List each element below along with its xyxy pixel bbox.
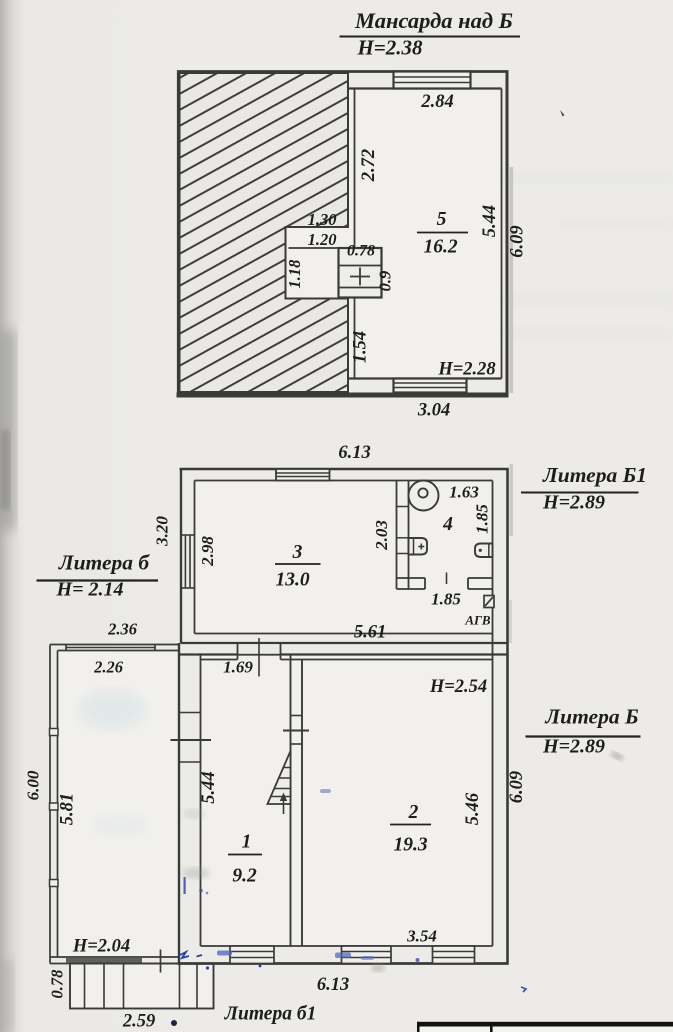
Литера Б left wall outer [178,643,180,965]
joint squares on veranda left wall [50,729,59,887]
bottom plan labels [24,443,647,1032]
svg-text:2.84: 2.84 [420,92,453,112]
room 4 bottom wall with door opening [397,573,493,590]
faint bleed-through rows [430,171,672,339]
ink marks and specks [78,690,625,1026]
Литера Б top wall lower line [178,653,508,655]
svg-text:0.78: 0.78 [347,243,375,260]
outer left wall [177,71,180,397]
svg-text:Литера Б: Литера Б [544,705,639,729]
svg-text:5.46: 5.46 [463,792,483,825]
svg-text:Н=2.54: Н=2.54 [429,677,487,697]
underline Литера Б [526,735,641,737]
svg-text:19.3: 19.3 [393,835,427,856]
room 5 interior fill [286,89,502,379]
wash fixture left (room 4) [409,538,428,555]
rooms 1-2 interior top line [201,659,238,661]
svg-text:9.2: 9.2 [232,866,257,887]
svg-text:2.59: 2.59 [122,1012,155,1032]
svg-text:2.98: 2.98 [198,536,217,567]
svg-text:0.9: 0.9 [376,271,395,292]
top plan dimension labels [285,92,528,421]
svg-text:2.72: 2.72 [359,149,379,182]
bottom window (3.04) [394,379,467,393]
room 4 left wall [397,481,409,590]
dark dot near 2.59 [171,1020,177,1026]
Литера Б left wall inner [200,655,202,947]
smudge near window mid-bottom [371,964,385,972]
dimension tick near 2.59 [160,950,162,973]
outer right wall [506,71,509,398]
svg-text:2: 2 [408,802,419,823]
underline Литера б [37,579,159,581]
veranda left wall (double) [50,645,58,964]
svg-text:6.13: 6.13 [338,443,370,463]
fraction line room 2 [390,824,431,826]
Б1 left wall window (3.20) [181,535,195,588]
dividing wall Б1/Б : room3 bottom inner line [195,633,493,635]
svg-text:Н=2.89: Н=2.89 [542,736,605,758]
svg-text:1.85: 1.85 [473,504,492,534]
fraction line room 3 [275,563,321,565]
svg-text:16.2: 16.2 [423,237,457,258]
Б1 left wall outer [180,468,182,644]
bottom windows [230,946,475,964]
svg-text:5.44: 5.44 [480,205,500,237]
top window (2.84) [394,72,471,89]
niche inner line (under 1.20) [289,247,340,249]
svg-text:5.44: 5.44 [199,771,219,803]
Б1 left wall inner [194,481,196,634]
svg-text:4: 4 [442,514,453,535]
inner right wall line [501,89,503,379]
svg-text:6.09: 6.09 [507,771,527,803]
fraction line room 5 [417,232,468,234]
svg-text:Н=2.38: Н=2.38 [356,36,423,60]
building bottom wall outer line [178,962,509,965]
veranda bottom wall [50,957,179,964]
svg-text:3.04: 3.04 [417,401,450,421]
svg-text:Литера б: Литера б [58,551,151,575]
window in left wall of room 1 [171,713,212,763]
toilet in room 4 [409,481,439,511]
svg-text:2.26: 2.26 [93,658,124,677]
right wall inner line [492,481,494,947]
svg-text:Н= 2.14: Н= 2.14 [56,579,124,601]
svg-text:6.00: 6.00 [24,770,43,800]
scanner shading left edge [0,0,26,1032]
svg-text:5.61: 5.61 [354,623,386,643]
svg-text:1.18: 1.18 [285,260,304,289]
interior wall between room 1 and 2 [283,655,309,947]
svg-text:5.81: 5.81 [58,793,78,825]
stair arrow [283,795,285,814]
Б1 top wall inner line [195,480,493,482]
gray smudge under H=2.89 [609,750,624,761]
АГВ gas unit square [484,596,494,608]
blue dash left wall room1 [184,877,186,894]
svg-text:1.85: 1.85 [431,590,461,609]
blue mark below 6.13 [521,987,526,992]
faint cyan smudges in veranda [78,690,146,730]
svg-text:Мансарда над Б: Мансарда над Б [354,8,513,33]
svg-text:Н=2.89: Н=2.89 [542,492,605,514]
veranda top wall [50,645,179,651]
gray band right of plan walls (fold shadow) [510,167,514,393]
svg-text:3: 3 [292,542,303,563]
svg-text:0.78: 0.78 [48,970,67,999]
underline Литера Б1 [521,492,639,494]
svg-text:АГВ: АГВ [464,613,491,628]
staircase in room 1 [268,751,291,814]
svg-text:6.09: 6.09 [508,225,528,257]
svg-text:3.54: 3.54 [406,927,437,946]
svg-text:3.20: 3.20 [153,516,172,547]
Литера Б1 outer top wall [180,468,509,470]
svg-text:1.20: 1.20 [308,230,337,249]
room 5 bottom wall inner line [348,377,502,379]
fraction line room 1 [228,854,262,856]
svg-text:Н=2.04: Н=2.04 [72,937,130,957]
building right wall outer (runs full height) [506,468,509,965]
room interiors fill [58,481,493,1009]
svg-text:2.36: 2.36 [107,620,138,639]
svg-text:1.63: 1.63 [449,483,479,502]
blue scribbles bottom left [180,952,189,958]
svg-text:6.13: 6.13 [317,975,349,995]
bottom outer wall (thick) [177,393,509,398]
title underline [340,36,521,38]
svg-text:1.69: 1.69 [223,658,253,677]
gray pencil smudges room 1 left [182,867,210,879]
svg-text:1.30: 1.30 [308,210,337,229]
dividing wall mid line [181,642,508,644]
black table edge bottom right [417,1022,673,1032]
doorway in dividing wall (1.69) [238,638,281,677]
wall face line between hatch and room 5 [354,89,356,249]
svg-text:13.0: 13.0 [275,570,309,591]
svg-text:Литера б1: Литера б1 [224,1004,317,1025]
building bottom wall inner line [201,945,493,947]
svg-text:5: 5 [437,209,447,230]
blue smears on bottom windows [217,951,232,956]
svg-text:Н=2.28: Н=2.28 [437,360,495,380]
chimney block [339,248,382,298]
outer top wall line [177,70,509,73]
blue speck room 2 [320,789,331,793]
room 5 top wall inner line [348,87,502,89]
wash fixture right (room 4) [475,544,493,558]
Б1 top window (6.13) [276,469,330,481]
svg-text:Литера Б1: Литера Б1 [542,463,647,487]
svg-text:1: 1 [242,832,252,853]
dark speck right margin [560,110,565,117]
hatched wall mass (chamber around room 5) [180,73,349,392]
svg-text:2.03: 2.03 [372,520,391,551]
svg-text:1.54: 1.54 [351,331,371,363]
